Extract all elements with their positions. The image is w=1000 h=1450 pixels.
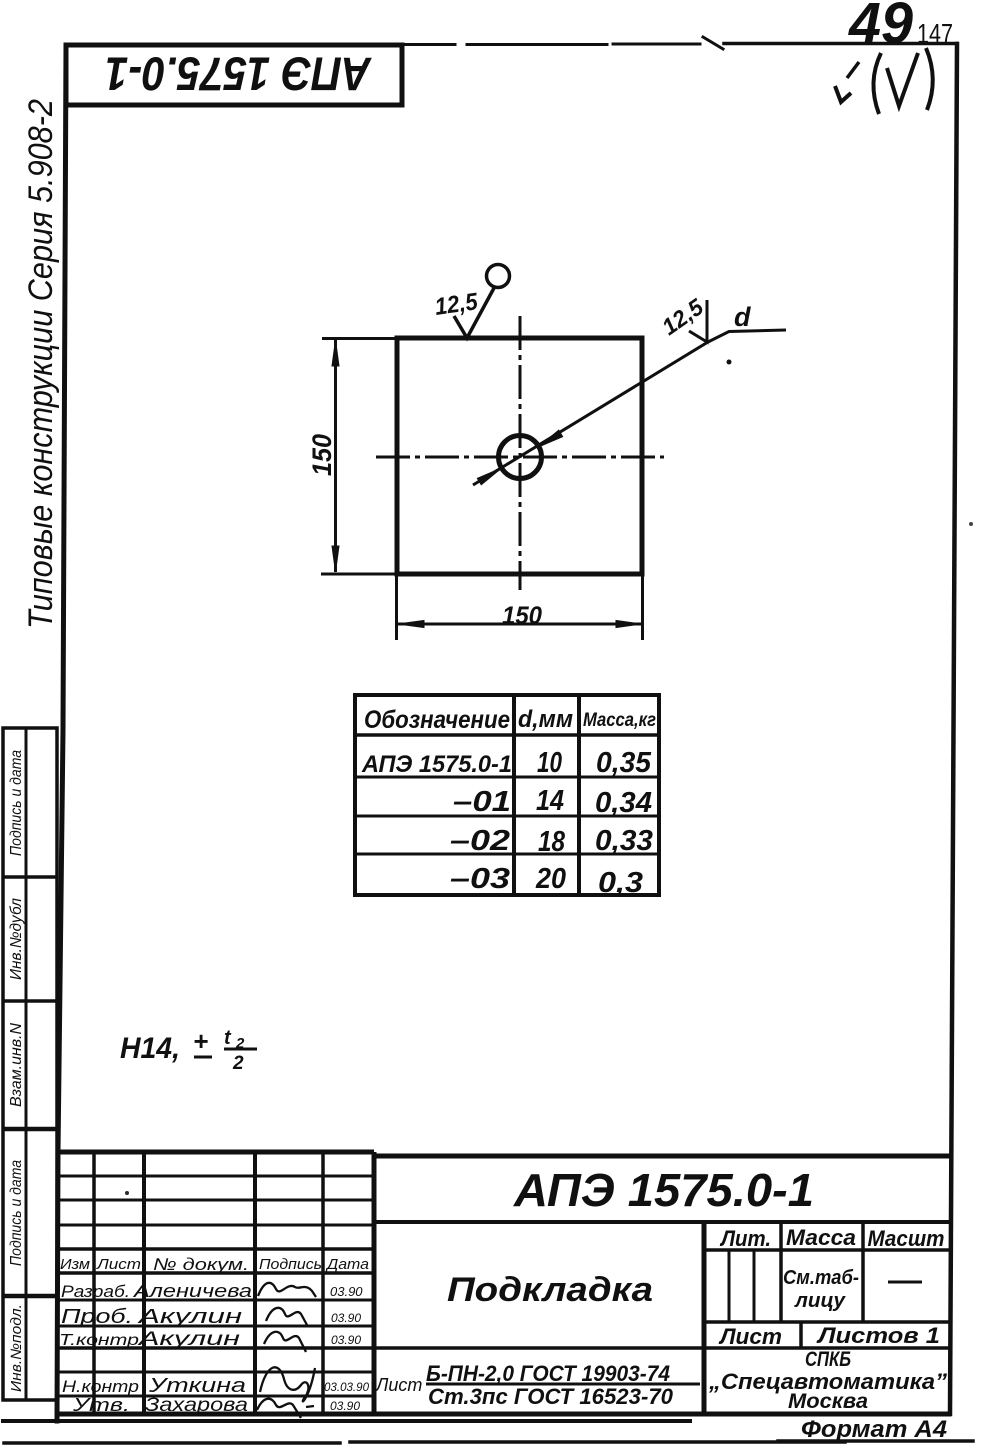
svg-text:Лист: Лист bbox=[96, 1256, 141, 1273]
svg-text:Инв.№дубл: Инв.№дубл bbox=[8, 898, 25, 980]
svg-text:АПЭ 1575.0-1: АПЭ 1575.0-1 bbox=[513, 1164, 814, 1216]
svg-text:Ст.3пс ГОСТ 16523-70: Ст.3пс ГОСТ 16523-70 bbox=[428, 1384, 674, 1409]
svg-text:Подпись: Подпись bbox=[259, 1256, 322, 1273]
svg-text:Лист: Лист bbox=[375, 1375, 422, 1395]
signature squiggles bbox=[257, 1283, 316, 1418]
svg-text:Подпись и дата: Подпись и дата bbox=[8, 750, 25, 856]
svg-text:Акулин: Акулин bbox=[137, 1329, 240, 1350]
svg-text:+: + bbox=[193, 1026, 208, 1056]
frame top border bbox=[402, 37, 957, 49]
svg-text:Масса,кг: Масса,кг bbox=[583, 710, 656, 731]
svg-text:Проб.: Проб. bbox=[61, 1306, 133, 1328]
svg-text:0,33: 0,33 bbox=[595, 825, 653, 857]
svg-text:Дата: Дата bbox=[325, 1256, 369, 1273]
svg-text:Типовые конструкции Серия: Типовые конструкции Серия 5.908-2 bbox=[22, 99, 60, 629]
svg-text:Аленичева: Аленичева bbox=[133, 1281, 252, 1301]
svg-text:Лит.: Лит. bbox=[719, 1226, 771, 1251]
svg-text:СПКБ: СПКБ bbox=[805, 1348, 851, 1371]
signature razrab bbox=[258, 1283, 316, 1297]
svg-text:03.90: 03.90 bbox=[330, 1399, 360, 1413]
roughness symbol on top edge bbox=[454, 288, 494, 338]
svg-text:0,35: 0,35 bbox=[596, 747, 652, 779]
svg-text:Масшт: Масшт bbox=[868, 1226, 945, 1251]
svg-text:Формат А4: Формат А4 bbox=[801, 1416, 947, 1443]
svg-text:03.90: 03.90 bbox=[330, 1284, 363, 1299]
svg-text:лицу: лицу bbox=[794, 1290, 846, 1312]
svg-text:Подпись и дата: Подпись и дата bbox=[8, 1160, 25, 1266]
table column lines bbox=[512, 695, 516, 895]
svg-text:2: 2 bbox=[232, 1053, 244, 1074]
leader line d bbox=[473, 330, 786, 485]
svg-text:АПЭ 1575.0-1: АПЭ 1575.0-1 bbox=[105, 48, 372, 101]
hole circle bbox=[499, 436, 542, 479]
title block top bbox=[57, 1150, 374, 1155]
leader arrow lower bbox=[478, 469, 500, 484]
svg-text:150: 150 bbox=[502, 602, 542, 630]
leader arrow upper bbox=[540, 431, 562, 447]
svg-text:Н14,: Н14, bbox=[120, 1032, 180, 1065]
svg-text:–02: –02 bbox=[450, 825, 510, 857]
svg-text:49: 49 bbox=[848, 0, 913, 56]
speck dot bbox=[727, 360, 732, 365]
plate outline square 150x150 bbox=[397, 338, 642, 574]
ink speck bbox=[125, 1191, 129, 1195]
sig table horizontals bbox=[57, 1175, 374, 1178]
list listov row bbox=[704, 1320, 951, 1324]
svg-text:d,мм: d,мм bbox=[518, 706, 573, 733]
svg-text:14: 14 bbox=[536, 785, 564, 817]
svg-text:Изм: Изм bbox=[60, 1256, 90, 1273]
svg-text:–01: –01 bbox=[453, 786, 511, 818]
svg-text:03.90: 03.90 bbox=[331, 1333, 361, 1347]
frame left border bbox=[57, 45, 66, 1421]
material fraction bar bbox=[426, 1383, 700, 1386]
svg-text:03.90: 03.90 bbox=[331, 1311, 361, 1325]
svg-text:Н.контр: Н.контр bbox=[62, 1377, 139, 1396]
svg-text:Листов 1: Листов 1 bbox=[816, 1323, 940, 1348]
svg-text:0,3: 0,3 bbox=[598, 867, 643, 899]
frame bottom line bbox=[3, 1419, 690, 1423]
bottom dimension line bbox=[398, 623, 642, 626]
ink speck bbox=[969, 522, 973, 526]
roughness circle bbox=[487, 265, 510, 288]
name cell right vertical bbox=[702, 1222, 707, 1414]
svg-text:Т.контр: Т.контр bbox=[59, 1332, 139, 1349]
svg-text:Акулин: Акулин bbox=[137, 1306, 242, 1328]
svg-text:Инв.№подл.: Инв.№подл. bbox=[8, 1304, 25, 1392]
svg-text:150: 150 bbox=[307, 434, 337, 476]
svg-text:147: 147 bbox=[917, 18, 953, 49]
svg-text:Б-ПН-2,0 ГОСТ 19903-74: Б-ПН-2,0 ГОСТ 19903-74 bbox=[426, 1361, 670, 1386]
svg-text:10: 10 bbox=[537, 747, 562, 779]
svg-text:18: 18 bbox=[538, 826, 566, 858]
masshtab dash bbox=[888, 1281, 922, 1284]
strip compartment lines bbox=[3, 875, 57, 879]
svg-text:См.таб-: См.таб- bbox=[783, 1267, 859, 1289]
designation cell bottom bbox=[374, 1220, 951, 1224]
strip outer bbox=[3, 728, 57, 1400]
lit massa masht header bottom bbox=[704, 1248, 951, 1252]
table row lines bbox=[355, 733, 659, 737]
left dimension line bbox=[334, 340, 337, 572]
stamp box top-left bbox=[66, 45, 402, 105]
signature utv bbox=[257, 1399, 314, 1418]
svg-text:Подкладка: Подкладка bbox=[447, 1271, 653, 1309]
svg-text:Москва: Москва bbox=[788, 1390, 868, 1413]
page bottom edge line bbox=[4, 1441, 973, 1443]
signature prov bbox=[266, 1308, 307, 1325]
sig table verticals bbox=[92, 1152, 96, 1414]
vertical centerline bbox=[519, 316, 522, 590]
strip divider bbox=[25, 728, 28, 1400]
svg-text:Уткина: Уткина bbox=[148, 1375, 246, 1397]
svg-text:0,34: 0,34 bbox=[595, 787, 652, 819]
svg-text:Масса: Масса bbox=[786, 1225, 856, 1250]
svg-text:Утв.: Утв. bbox=[72, 1395, 130, 1415]
signature tkontr bbox=[264, 1332, 306, 1352]
svg-text:20: 20 bbox=[535, 863, 566, 895]
svg-text:АПЭ 1575.0-1: АПЭ 1575.0-1 bbox=[361, 751, 512, 778]
horizontal centerline bbox=[376, 456, 664, 459]
svg-text:№ докум.: № докум. bbox=[153, 1255, 249, 1274]
roughness symbol near d bbox=[689, 300, 707, 342]
lit col separators bbox=[779, 1222, 783, 1322]
title block bottom bbox=[57, 1412, 951, 1417]
svg-text:Взам.инв.N: Взам.инв.N bbox=[8, 1023, 25, 1107]
roughness general mark (v) bbox=[835, 48, 933, 114]
svg-text:Лист: Лист bbox=[718, 1324, 782, 1349]
svg-text:Захарова: Захарова bbox=[145, 1395, 248, 1416]
svg-text:–03: –03 bbox=[450, 863, 510, 895]
svg-text:Разраб.: Разраб. bbox=[61, 1282, 130, 1301]
svg-text:d: d bbox=[734, 302, 751, 332]
svg-text:03.03.90: 03.03.90 bbox=[324, 1380, 369, 1394]
frame right border bbox=[950, 44, 957, 1414]
table outer bbox=[355, 695, 659, 895]
svg-text:Обозначение: Обозначение bbox=[364, 706, 510, 734]
signature nkontr bbox=[260, 1367, 315, 1401]
